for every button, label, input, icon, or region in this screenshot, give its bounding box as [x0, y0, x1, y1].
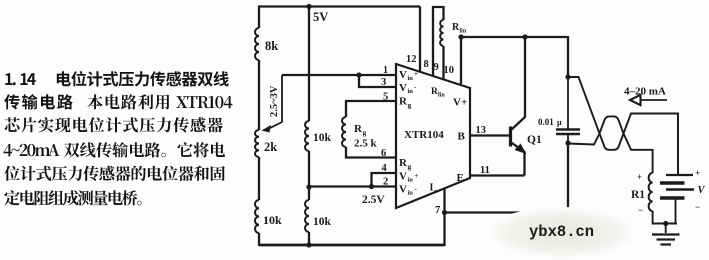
- node 5V junction: [306, 4, 311, 9]
- label R1 minus: [638, 205, 643, 215]
- pin number 4: [382, 163, 388, 174]
- wire pin 13 base: [470, 134, 510, 136]
- wire return line: [445, 143, 569, 213]
- node ground junction: [663, 221, 668, 226]
- wire Rg to pin 6: [346, 147, 396, 158]
- svg-text:g: g: [408, 162, 412, 171]
- svg-text:10: 10: [444, 65, 455, 76]
- label 2.5V: [362, 194, 385, 206]
- wire middle branch bottom: [308, 232, 310, 246]
- transistor Q1 collector: [511, 37, 526, 131]
- wire middle branch top: [308, 7, 310, 122]
- resistor Rlin coil: [440, 20, 467, 46]
- svg-text:2.5 k: 2.5 k: [354, 138, 378, 150]
- svg-text:+: +: [637, 172, 642, 182]
- resistor Rg 2.5k: [342, 117, 378, 150]
- pin number 12: [406, 54, 417, 65]
- wire V+ rail top: [461, 37, 568, 77]
- svg-text:+: +: [414, 70, 418, 78]
- pin number 3: [381, 77, 386, 88]
- pin number 5: [383, 92, 388, 103]
- pin number 9: [434, 62, 439, 73]
- svg-text:4: 4: [382, 163, 388, 174]
- svg-text:I: I: [430, 183, 434, 194]
- label Vin+ pin4: [399, 171, 419, 184]
- ground: [652, 224, 680, 245]
- svg-text:9: 9: [434, 62, 439, 73]
- svg-text:10k: 10k: [263, 213, 282, 227]
- svg-text:Q1: Q1: [527, 134, 542, 146]
- wire pin 3: [359, 75, 396, 87]
- resistor 10k lower middle: [305, 200, 332, 232]
- battery V: [660, 113, 694, 224]
- svg-text:+: +: [695, 168, 700, 178]
- label V+ inside: [453, 97, 467, 109]
- resistor 8k: [255, 28, 278, 60]
- wire Rlin to pin 9: [442, 46, 444, 80]
- svg-text:E: E: [457, 172, 464, 184]
- label XTR104 inside: [404, 129, 444, 141]
- label 2.5-3V: [269, 85, 280, 117]
- watermark ybx8.cn: [487, 207, 637, 259]
- svg-text:2: 2: [383, 177, 388, 188]
- wire pin 5 to Rg: [346, 101, 396, 117]
- label Vin- pin3: [399, 82, 417, 95]
- svg-text:g: g: [363, 128, 367, 137]
- node cap top junction: [565, 74, 570, 79]
- svg-text:2.5~3V: 2.5~3V: [269, 85, 280, 117]
- wire left branch low: [258, 157, 260, 200]
- wire left branch bottom: [258, 233, 260, 246]
- svg-text:V+: V+: [453, 97, 467, 109]
- wire R1 bottom: [653, 211, 677, 224]
- label R1 plus: [637, 172, 642, 182]
- svg-text:5: 5: [383, 92, 388, 103]
- node pin10 corner: [458, 34, 463, 39]
- svg-text:2k: 2k: [264, 140, 277, 154]
- svg-text:3: 3: [381, 77, 386, 88]
- svg-text:−: −: [695, 202, 700, 212]
- pin number 6: [381, 148, 386, 159]
- resistor R1: [631, 173, 653, 211]
- svg-text:6: 6: [381, 148, 386, 159]
- svg-text:12: 12: [406, 54, 417, 65]
- label E inside: [457, 172, 464, 184]
- wiper arrow of potentiometer: [262, 75, 283, 133]
- pin number 13: [476, 125, 487, 136]
- pin number 1: [383, 65, 388, 76]
- wire pin 12 to rail: [419, 7, 421, 73]
- svg-text:V: V: [399, 171, 407, 183]
- svg-text:+: +: [415, 172, 419, 180]
- svg-text:μ: μ: [557, 118, 562, 127]
- pin number 8: [424, 59, 429, 70]
- svg-text:R: R: [431, 87, 438, 97]
- pin number 11: [480, 165, 490, 176]
- node pin7 junction: [442, 210, 447, 215]
- wire left branch top: [258, 6, 260, 29]
- wire pin 10 up: [460, 37, 462, 84]
- label Q1: [527, 134, 542, 146]
- wire pin 2 from bridge: [309, 185, 396, 187]
- svg-text:in: in: [408, 177, 414, 184]
- svg-text:5V: 5V: [313, 10, 328, 24]
- svg-text:−: −: [638, 205, 643, 215]
- svg-text:4–20 mA: 4–20 mA: [624, 86, 666, 98]
- wire left branch mid: [258, 60, 260, 130]
- svg-text:in: in: [408, 88, 414, 95]
- label Vin+ pin1: [399, 69, 418, 82]
- potentiometer 2k: [255, 130, 277, 157]
- twisted pair wire A: [568, 77, 678, 173]
- transistor Q1 emitter: [511, 142, 527, 176]
- svg-text:V: V: [698, 185, 706, 196]
- wire pin 4: [372, 173, 397, 187]
- label Vin- pin2: [399, 184, 418, 197]
- pin number 10: [444, 65, 455, 76]
- transistor Q1 base bar: [509, 127, 512, 147]
- svg-text:g: g: [408, 101, 412, 110]
- svg-text:7: 7: [435, 205, 440, 216]
- pin number 7: [435, 205, 440, 216]
- wire wiper to pins: [282, 74, 359, 76]
- svg-text:8: 8: [424, 59, 429, 70]
- label Rlin inside: [431, 87, 445, 99]
- label battery minus: [695, 202, 700, 212]
- wire pin 8 up: [433, 7, 444, 76]
- svg-text:in: in: [408, 190, 414, 197]
- node pin2-pin4 junction: [369, 184, 374, 189]
- label Rg upper: [399, 96, 412, 110]
- label battery V: [698, 185, 706, 196]
- wire middle branch mid: [308, 151, 310, 200]
- node wiper junction: [356, 72, 361, 77]
- wire pin 11 emitter: [470, 174, 525, 176]
- wire 5V top rail: [259, 5, 420, 7]
- svg-text:R1: R1: [631, 189, 645, 201]
- svg-text:o: o: [434, 188, 437, 195]
- svg-text:lin: lin: [460, 29, 467, 35]
- label 5V: [313, 10, 328, 24]
- resistor 10k left: [255, 200, 282, 233]
- capacitor C1 0.01u: [556, 77, 580, 143]
- arrow 4-20 mA: [630, 95, 667, 105]
- svg-text:2.5V: 2.5V: [362, 194, 385, 206]
- node collector tap: [522, 34, 527, 39]
- op-amp U1 XTR104 body: [396, 64, 470, 208]
- label 4-20 mA: [624, 86, 666, 98]
- svg-text:V: V: [399, 82, 407, 94]
- svg-text:B: B: [458, 131, 466, 143]
- resistor 10k upper middle: [305, 121, 332, 151]
- svg-text:lin: lin: [438, 93, 445, 99]
- svg-text:ybx8.cn: ybx8.cn: [529, 223, 594, 241]
- svg-text:10k: 10k: [313, 132, 332, 144]
- svg-text:V: V: [399, 69, 407, 81]
- caption text block: [4, 71, 233, 206]
- label Rg lower: [399, 157, 412, 171]
- pin number 2: [383, 177, 388, 188]
- label 0.01u: [538, 117, 562, 127]
- svg-text:8k: 8k: [265, 39, 278, 53]
- node bridge bottom: [306, 242, 311, 247]
- svg-text:1: 1: [383, 65, 388, 76]
- label B inside: [458, 131, 466, 143]
- svg-text:-: -: [415, 185, 418, 193]
- svg-text:-: -: [414, 83, 417, 91]
- label battery plus: [695, 168, 700, 178]
- svg-text:11: 11: [480, 165, 490, 176]
- label Io inside: [430, 183, 438, 196]
- node bridge midpoint: [306, 184, 311, 189]
- wire pin 7 down: [443, 189, 445, 246]
- svg-text:in: in: [408, 75, 414, 82]
- svg-text:0.01: 0.01: [538, 117, 554, 127]
- node cap bottom junction: [565, 140, 570, 145]
- svg-text:10k: 10k: [313, 216, 332, 228]
- svg-text:XTR104: XTR104: [404, 129, 444, 141]
- svg-text:13: 13: [476, 125, 487, 136]
- twisted pair wire B: [568, 116, 653, 173]
- wire pin 1: [359, 74, 396, 76]
- wire bottom rail: [259, 244, 445, 247]
- svg-text:V: V: [399, 184, 407, 196]
